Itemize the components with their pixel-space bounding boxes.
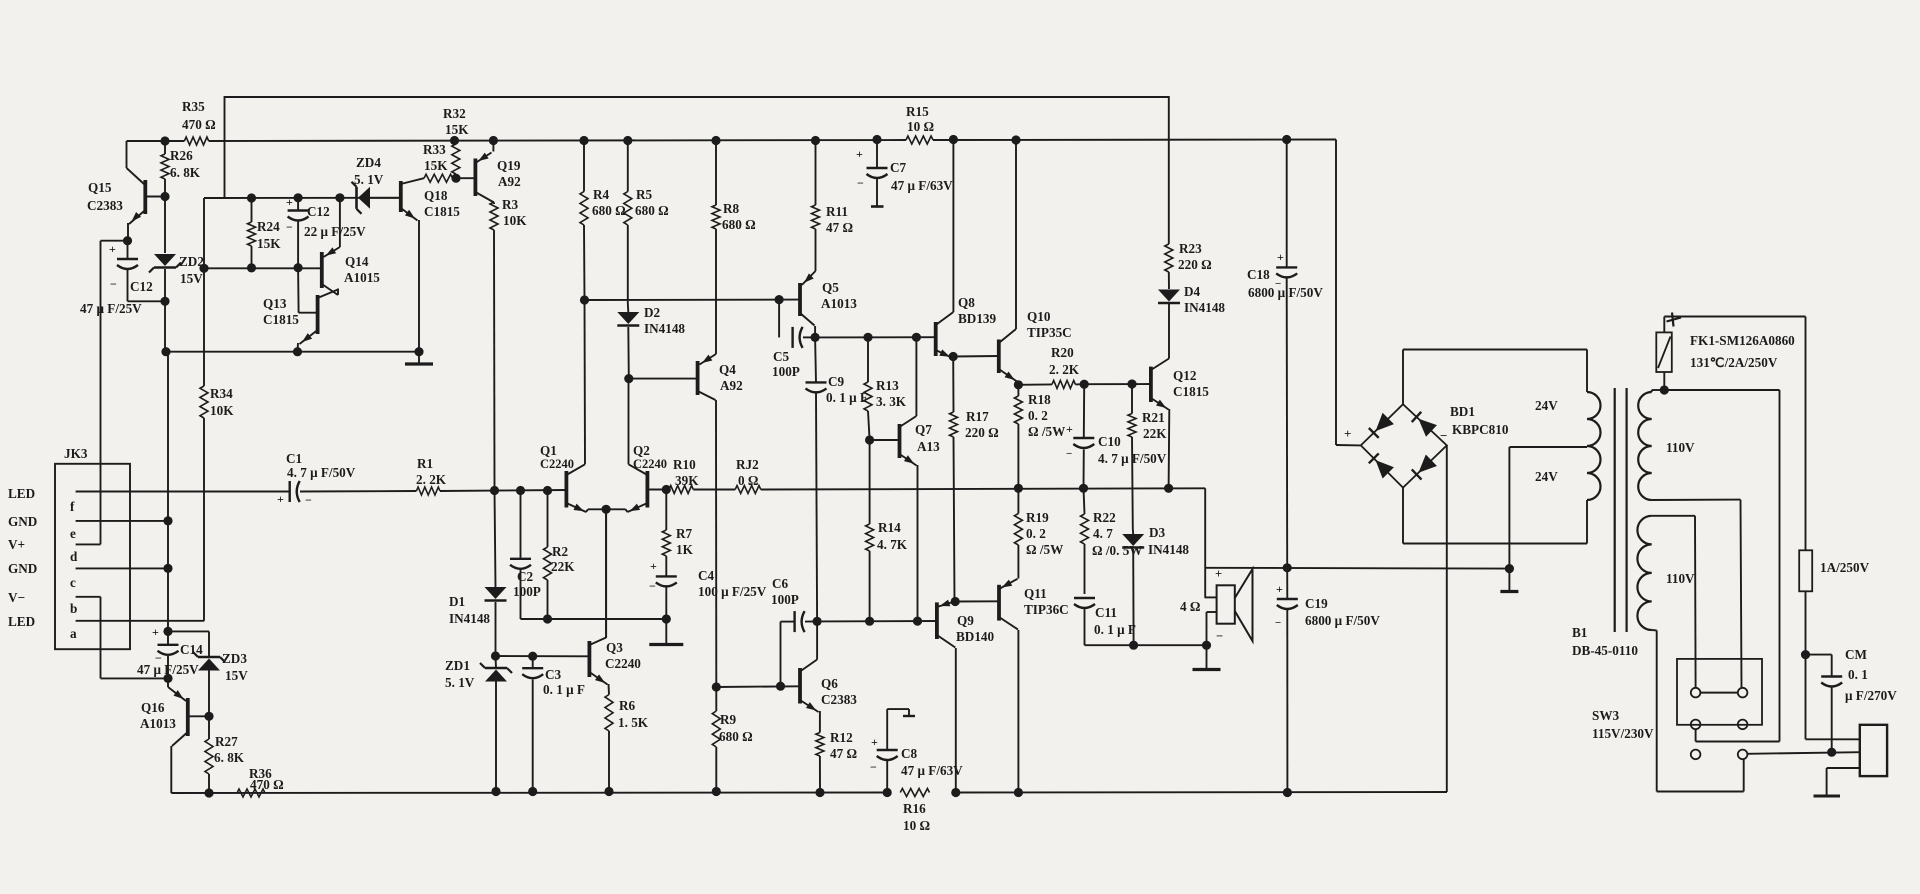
node R21 top	[1127, 379, 1136, 388]
svg-text:680 Ω: 680 Ω	[635, 203, 669, 218]
svg-text:IN4148: IN4148	[1148, 542, 1189, 557]
svg-text:+: +	[152, 625, 159, 639]
resistor R34	[203, 198, 205, 268]
node Q5 collector	[811, 333, 820, 342]
svg-text:V+: V+	[8, 537, 25, 552]
svg-text:LED: LED	[8, 486, 35, 501]
svg-text:+: +	[871, 735, 878, 749]
svg-text:10 Ω: 10 Ω	[907, 119, 934, 134]
wire primary top stub	[1586, 350, 1588, 393]
svg-text:a: a	[70, 626, 77, 641]
svg-text:A1013: A1013	[140, 716, 176, 731]
svg-text:47 μ F/25V: 47 μ F/25V	[80, 301, 142, 316]
node C14 minus	[163, 674, 172, 683]
svg-text:4. 7 μ F/50V: 4. 7 μ F/50V	[287, 465, 356, 480]
svg-text:C11: C11	[1095, 605, 1117, 620]
svg-text:R33: R33	[423, 142, 446, 157]
capacitor C2	[520, 491, 522, 559]
svg-text:10K: 10K	[210, 403, 234, 418]
transistor Q8	[934, 322, 938, 356]
node Q10 base node	[949, 352, 958, 361]
wire output line	[1205, 567, 1509, 570]
svg-text:+: +	[1344, 426, 1351, 441]
svg-text:0. 1 μ F: 0. 1 μ F	[826, 390, 868, 405]
svg-text:BD1: BD1	[1450, 404, 1475, 419]
transistor Q18	[399, 181, 403, 212]
svg-text:−: −	[649, 579, 656, 593]
svg-text:DB-45-0110: DB-45-0110	[1572, 643, 1638, 658]
mains plug	[1860, 725, 1887, 776]
svg-text:−: −	[857, 176, 864, 190]
transistor Q13	[316, 295, 320, 334]
resistor R17	[952, 357, 954, 413]
node bias junctions	[247, 193, 256, 202]
resistor R11	[815, 141, 817, 206]
capacitor C3	[532, 656, 534, 668]
resistor R27	[205, 739, 213, 774]
svg-text:C1815: C1815	[263, 312, 299, 327]
resistor R3	[490, 202, 498, 230]
svg-text:CM: CM	[1845, 647, 1868, 662]
svg-text:Q6: Q6	[821, 676, 838, 691]
svg-text:+: +	[856, 147, 863, 161]
svg-text:680 Ω: 680 Ω	[719, 729, 753, 744]
svg-text:C2: C2	[517, 569, 534, 584]
capacitor C8	[886, 709, 888, 750]
svg-text:0. 1 μ F: 0. 1 μ F	[543, 682, 585, 697]
switch SW3 outline	[1677, 659, 1762, 725]
svg-text:A1015: A1015	[344, 270, 380, 285]
svg-text:R20: R20	[1051, 345, 1074, 360]
resistor R16	[900, 789, 929, 797]
wire bridge top AC	[1402, 350, 1404, 405]
wire Q6 base line	[716, 685, 800, 688]
svg-text:100 μ F/25V: 100 μ F/25V	[698, 584, 767, 599]
svg-text:−: −	[305, 493, 312, 507]
svg-text:R32: R32	[443, 106, 466, 121]
svg-text:100P: 100P	[772, 364, 800, 379]
svg-text:6. 8K: 6. 8K	[214, 750, 245, 765]
svg-text:R24: R24	[257, 219, 280, 234]
wire Q9 base line	[817, 620, 937, 622]
svg-text:IN4148: IN4148	[449, 611, 490, 626]
wire e-c-a column	[167, 352, 169, 632]
capacitor CM	[1806, 654, 1832, 656]
ground transformer center tap	[1505, 564, 1514, 573]
svg-text:A92: A92	[498, 174, 521, 189]
resistor R9	[715, 687, 717, 711]
wire 110V upper bottom	[1652, 499, 1741, 501]
wire bridge minus lead	[1446, 445, 1448, 792]
svg-text:C3: C3	[545, 667, 562, 682]
svg-text:470 Ω: 470 Ω	[250, 777, 284, 792]
wire bias line	[204, 197, 225, 199]
wire SW3 P6 to plug	[1747, 752, 1859, 754]
svg-text:C9: C9	[828, 374, 845, 389]
svg-text:115V/230V: 115V/230V	[1592, 726, 1654, 741]
node Q4 base node	[624, 374, 633, 383]
svg-text:+: +	[1066, 422, 1073, 436]
svg-text:100P: 100P	[771, 592, 799, 607]
svg-text:f: f	[70, 499, 75, 514]
svg-text:10K: 10K	[503, 213, 527, 228]
svg-text:KBPC810: KBPC810	[1452, 422, 1509, 437]
svg-text:−: −	[110, 277, 117, 291]
svg-text:2. 2K: 2. 2K	[416, 472, 447, 487]
node R9 top	[712, 682, 721, 691]
wire fuse to plug	[1805, 591, 1807, 739]
svg-text:C1: C1	[286, 451, 302, 466]
svg-text:+: +	[109, 242, 116, 256]
svg-text:BD140: BD140	[956, 629, 995, 644]
wire P1-P2 link	[1700, 692, 1737, 694]
wire 110V upper top	[1651, 390, 1653, 392]
svg-text:−: −	[1066, 448, 1072, 460]
svg-text:680 Ω: 680 Ω	[722, 217, 756, 232]
resistor R8	[715, 141, 717, 206]
transistor Q12	[1149, 367, 1153, 402]
node C14 plus	[163, 627, 172, 636]
resistor R36	[237, 789, 265, 797]
diode D1	[495, 491, 496, 588]
node R20 out	[1080, 380, 1089, 389]
svg-text:15K: 15K	[424, 158, 448, 173]
ground near Q18	[414, 347, 423, 356]
svg-text:R12: R12	[830, 730, 853, 745]
transformer primary 24V windings	[1587, 392, 1601, 500]
svg-text:D4: D4	[1184, 284, 1201, 299]
ground mains earth pin	[1827, 767, 1860, 769]
resistor R7	[665, 490, 667, 531]
svg-text:V−: V−	[8, 590, 25, 605]
svg-text:C12: C12	[307, 204, 330, 219]
node Q3 base node	[491, 651, 500, 660]
node Q15 base	[160, 192, 169, 201]
resistor R21	[1131, 384, 1133, 414]
node CM bottom	[1827, 748, 1836, 757]
svg-text:D2: D2	[644, 305, 661, 320]
bridge diode bottom-right	[1418, 454, 1437, 472]
svg-text:C1815: C1815	[1173, 384, 1209, 399]
wire Q10 base line	[953, 355, 999, 358]
svg-text:−: −	[1275, 617, 1281, 629]
svg-text:6. 8K: 6. 8K	[170, 165, 201, 180]
svg-text:R14: R14	[878, 520, 901, 535]
svg-text:6800 μ F/50V: 6800 μ F/50V	[1248, 285, 1323, 300]
svg-text:3. 3K: 3. 3K	[876, 394, 907, 409]
svg-text:C10: C10	[1098, 434, 1121, 449]
svg-text:D3: D3	[1149, 525, 1166, 540]
wire pin d	[76, 543, 101, 545]
svg-text:C7: C7	[890, 160, 907, 175]
wire pin a	[76, 620, 204, 622]
svg-text:B1: B1	[1572, 625, 1587, 640]
svg-text:220 Ω: 220 Ω	[965, 425, 999, 440]
svg-text:15V: 15V	[225, 668, 248, 683]
capacitor C19	[1286, 568, 1288, 599]
resistor R24	[251, 198, 253, 222]
svg-text:−: −	[286, 220, 293, 234]
switch pin P2	[1738, 688, 1748, 698]
svg-text:C19: C19	[1305, 596, 1328, 611]
wire top rail	[225, 97, 1169, 242]
svg-text:+: +	[1277, 250, 1284, 264]
svg-text:Ω /5W: Ω /5W	[1028, 424, 1065, 439]
bridge diode top-right	[1418, 419, 1437, 437]
wire C12a bottom	[128, 300, 166, 302]
wire primary center tap	[1509, 446, 1587, 448]
svg-text:R15: R15	[906, 104, 929, 119]
svg-text:Q1: Q1	[540, 443, 557, 458]
capacitor C4	[656, 575, 677, 577]
svg-text:680 Ω: 680 Ω	[592, 203, 626, 218]
svg-text:C8: C8	[901, 746, 918, 761]
transistor Q16	[186, 698, 190, 736]
wire pin f input	[76, 491, 290, 493]
transistor Q2	[646, 471, 650, 508]
wire V+ rail	[127, 140, 185, 142]
svg-text:+: +	[1215, 567, 1222, 581]
svg-text:15K: 15K	[257, 236, 281, 251]
svg-text:1K: 1K	[676, 542, 694, 557]
wire bias ground rail	[166, 351, 419, 353]
svg-text:R3: R3	[502, 197, 519, 212]
transistor Q15	[143, 180, 147, 214]
transformer core	[1614, 388, 1616, 632]
wire Q12 base line	[1084, 383, 1151, 385]
svg-text:C4: C4	[698, 568, 715, 583]
ground input	[665, 619, 667, 645]
diode D3	[1132, 529, 1134, 534]
svg-text:JK3: JK3	[64, 446, 88, 461]
svg-text:R11: R11	[826, 204, 848, 219]
svg-text:IN4148: IN4148	[1184, 300, 1225, 315]
svg-text:SW3: SW3	[1592, 708, 1620, 723]
resistor R14	[869, 440, 871, 524]
svg-text:47 Ω: 47 Ω	[830, 746, 857, 761]
wire Q15 emitter to pin d	[101, 240, 128, 242]
node Q2 base node	[662, 485, 671, 494]
resistor R32	[455, 141, 456, 145]
svg-text:4. 7: 4. 7	[1093, 526, 1113, 541]
resistor R33	[424, 174, 453, 182]
svg-text:39K: 39K	[675, 473, 699, 488]
node Q15 emitter	[123, 236, 132, 245]
svg-text:4. 7K: 4. 7K	[877, 537, 908, 552]
transistor Q4	[696, 361, 700, 395]
svg-text:R5: R5	[636, 187, 653, 202]
zener ZD1	[495, 656, 498, 668]
svg-text:R13: R13	[876, 378, 899, 393]
svg-text:R17: R17	[966, 409, 989, 424]
capacitor C9	[814, 337, 817, 382]
switch pin P6	[1738, 750, 1748, 760]
svg-text:5. 1V: 5. 1V	[354, 172, 384, 187]
svg-text:+: +	[650, 559, 657, 573]
svg-text:5. 1V: 5. 1V	[445, 675, 475, 690]
svg-text:2. 2K: 2. 2K	[1049, 362, 1080, 377]
svg-text:RJ2: RJ2	[736, 457, 759, 472]
node CM top	[1801, 650, 1810, 659]
transistor Q10	[997, 340, 1001, 374]
svg-text:Q9: Q9	[957, 613, 974, 628]
wire pin e	[76, 520, 168, 522]
resistor R10	[669, 486, 693, 494]
svg-text:+: +	[286, 195, 293, 209]
transistor Q9	[935, 602, 939, 639]
svg-text:Ω /0. 5W: Ω /0. 5W	[1092, 543, 1143, 558]
transistor Q5	[798, 283, 802, 316]
svg-text:0. 1: 0. 1	[1848, 667, 1868, 682]
resistor R18	[1017, 385, 1019, 396]
transistor Q3	[588, 641, 592, 677]
resistor R12	[819, 711, 821, 733]
svg-text:R10: R10	[673, 457, 696, 472]
capacitor C11	[1074, 597, 1095, 599]
svg-text:R22: R22	[1093, 510, 1116, 525]
svg-text:−: −	[870, 760, 877, 774]
svg-text:Q18: Q18	[424, 188, 448, 203]
wire primary bottom stub	[1586, 500, 1588, 544]
bridge diode bottom-left	[1376, 460, 1394, 478]
svg-text:TIP36C: TIP36C	[1024, 602, 1069, 617]
transistor Q14	[320, 252, 324, 288]
capacitor C12a 47uF/25V	[127, 241, 129, 259]
transistor Q11	[997, 585, 1001, 621]
transistor Q19	[473, 159, 477, 197]
svg-text:C5: C5	[773, 349, 790, 364]
svg-text:A1013: A1013	[821, 296, 857, 311]
svg-text:15K: 15K	[445, 122, 469, 137]
wire FK1 to fuse	[1664, 316, 1805, 318]
node V+ junctions	[160, 136, 169, 145]
switch pin P3	[1691, 720, 1701, 730]
svg-text:c: c	[70, 575, 76, 590]
svg-text:C18: C18	[1247, 267, 1270, 282]
zener ZD4	[358, 187, 370, 209]
svg-text:0. 2: 0. 2	[1028, 408, 1048, 423]
svg-text:b: b	[70, 601, 77, 616]
zener ZD3	[168, 630, 209, 632]
transistor Q7	[898, 424, 902, 458]
capacitor C6	[780, 622, 782, 687]
svg-text:131℃/2A/250V: 131℃/2A/250V	[1690, 355, 1778, 370]
transformer secondary 110V upper	[1638, 392, 1652, 500]
svg-text:110V: 110V	[1666, 571, 1695, 586]
node Q16 base	[204, 712, 213, 721]
svg-text:C12: C12	[130, 279, 153, 294]
svg-text:R23: R23	[1179, 241, 1202, 256]
node Q9 emitter node	[951, 597, 960, 606]
wire 110V tap to SW3	[1664, 389, 1779, 391]
svg-text:R7: R7	[676, 526, 693, 541]
svg-text:0 Ω: 0 Ω	[738, 473, 758, 488]
wire Q1 collector	[584, 300, 587, 464]
node C6 right node	[813, 617, 822, 626]
svg-text:Q13: Q13	[263, 296, 287, 311]
transistor Q6	[798, 668, 802, 704]
svg-text:Q19: Q19	[497, 158, 521, 173]
svg-text:10 Ω: 10 Ω	[903, 818, 930, 833]
svg-text:R16: R16	[903, 801, 926, 816]
svg-text:FK1-SM126A0860: FK1-SM126A0860	[1690, 333, 1795, 348]
svg-text:Q8: Q8	[958, 295, 975, 310]
svg-text:R21: R21	[1142, 410, 1165, 425]
svg-text:0. 1 μ F: 0. 1 μ F	[1094, 622, 1136, 637]
resistor R22	[1084, 488, 1085, 514]
resistor R2	[547, 491, 549, 548]
svg-text:C2240: C2240	[605, 656, 641, 671]
svg-text:−: −	[1216, 629, 1223, 643]
svg-text:R1: R1	[417, 456, 433, 471]
svg-text:C2383: C2383	[87, 198, 123, 213]
resistor R5	[627, 141, 629, 192]
capacitor C14	[167, 631, 169, 644]
svg-text:Ω /5W: Ω /5W	[1026, 542, 1063, 557]
svg-text:1. 5K: 1. 5K	[618, 715, 649, 730]
capacitor C7	[876, 140, 878, 169]
resistor R20	[1018, 383, 1052, 385]
wire pin c	[76, 567, 168, 569]
capacitor C12b 22uF/25V	[297, 198, 299, 211]
svg-text:D1: D1	[449, 594, 465, 609]
switch pin P4	[1738, 720, 1748, 730]
resistor R15	[906, 136, 933, 144]
svg-text:Q3: Q3	[606, 640, 623, 655]
wire Q8 base line	[815, 336, 936, 338]
thermal fuse FK1	[1663, 372, 1665, 390]
resistor R23	[1168, 242, 1170, 244]
resistor R13	[867, 337, 869, 382]
wire 110V lower bottom	[1652, 629, 1657, 631]
svg-text:BD139: BD139	[958, 311, 997, 326]
connector JK3 box	[55, 464, 130, 649]
svg-text:R4: R4	[593, 187, 610, 202]
svg-text:A13: A13	[917, 439, 940, 454]
wire Q3 base line	[496, 655, 590, 657]
svg-text:100P: 100P	[513, 584, 541, 599]
svg-text:R19: R19	[1026, 510, 1049, 525]
resistor RJ2	[735, 486, 761, 494]
svg-text:μ F/270V: μ F/270V	[1845, 688, 1897, 703]
svg-text:R8: R8	[723, 201, 740, 216]
svg-text:d: d	[70, 549, 78, 564]
svg-text:C6: C6	[772, 576, 789, 591]
svg-text:ZD4: ZD4	[356, 155, 381, 170]
svg-text:R18: R18	[1028, 392, 1051, 407]
svg-text:−: −	[1440, 428, 1447, 443]
wire pin b	[76, 596, 101, 598]
capacitor C18	[1286, 140, 1288, 268]
svg-text:Q4: Q4	[719, 362, 736, 377]
svg-text:A92: A92	[720, 378, 743, 393]
speaker	[1205, 596, 1217, 598]
transformer secondary 110V lower	[1637, 516, 1651, 630]
bridge diode top-left	[1376, 413, 1394, 431]
svg-text:C2240: C2240	[633, 457, 667, 471]
wire bridge plus lead	[1336, 444, 1361, 446]
resistor R19	[1017, 488, 1019, 513]
svg-text:R2: R2	[552, 544, 569, 559]
node Q7 base node	[865, 435, 874, 444]
wire mid line	[585, 299, 799, 301]
svg-text:220 Ω: 220 Ω	[1178, 257, 1212, 272]
wire 110V lower top	[1652, 515, 1695, 517]
wire Q14 base line	[202, 267, 322, 269]
node input junctions	[490, 486, 499, 495]
svg-text:Q10: Q10	[1027, 309, 1051, 324]
svg-text:C2383: C2383	[821, 692, 857, 707]
